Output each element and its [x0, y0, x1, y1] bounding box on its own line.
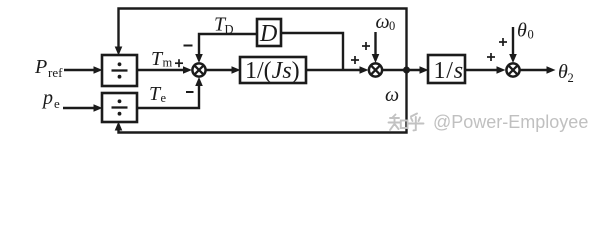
svg-text:0: 0	[389, 19, 395, 33]
wire output theta2	[520, 69, 548, 71]
svg-text:e: e	[54, 96, 60, 111]
plus sign at S2 left input	[351, 56, 359, 64]
svg-text:ω: ω	[376, 11, 390, 33]
arrowhead into S3 top	[509, 54, 517, 63]
wire integrator to summer S3	[465, 69, 498, 71]
arrowhead into S2 top	[372, 54, 380, 63]
svg-text:P: P	[34, 56, 47, 78]
wire inertia output to summer S2	[306, 69, 361, 71]
arrowhead into S1 top	[195, 54, 203, 63]
minus sign at S1 bottom input	[186, 91, 194, 93]
svg-text:p: p	[41, 87, 53, 109]
summing junction S1	[192, 63, 205, 76]
plus sign at S3 top input	[499, 38, 507, 46]
wire top feedback from node omega to divider1 top	[119, 9, 407, 71]
arrowhead into S1 left	[183, 66, 192, 74]
wire tap from main line up into damping block D	[281, 33, 343, 70]
divider block DIV1	[102, 55, 137, 86]
arrowhead into divider1	[94, 66, 103, 74]
arrowhead into S3 left	[497, 66, 506, 74]
plus sign at S2 top input	[362, 42, 370, 50]
inertia block 1/(Js)	[240, 57, 306, 83]
integrator block 1/s	[428, 55, 465, 83]
svg-text:1/(Js): 1/(Js)	[245, 58, 300, 84]
arrowhead into S2 left	[360, 66, 369, 74]
summing junction S2	[369, 63, 382, 76]
arrowhead into divider2	[94, 104, 103, 112]
wire bottom feedback from node omega to divider2 bottom	[119, 70, 407, 133]
divide symbol in DIV2	[112, 99, 128, 115]
wire pe input	[63, 107, 95, 109]
wire theta0 input into S3 top	[512, 27, 514, 56]
svg-text:e: e	[161, 91, 167, 105]
wire omega0 input into S2 top	[374, 32, 376, 56]
arrowhead into divider1 top	[115, 47, 123, 56]
svg-text:ω: ω	[385, 84, 399, 106]
divider block DIV2	[102, 93, 137, 122]
watermark zhihu glyphs	[389, 114, 424, 131]
plus sign at S1 left input	[175, 59, 183, 67]
svg-text:m: m	[163, 56, 173, 70]
svg-text:1/s: 1/s	[434, 58, 464, 84]
wire Te from DIV2 up into S1 bottom	[137, 84, 199, 108]
wire Tm from DIV1 to summer S1	[137, 69, 185, 71]
wire TD from damping block D down into S1 top	[199, 34, 257, 56]
svg-text:0: 0	[528, 28, 534, 42]
damping block D	[257, 19, 281, 46]
svg-text:2: 2	[568, 71, 574, 85]
svg-text:D: D	[259, 21, 277, 47]
svg-text:ref: ref	[48, 65, 63, 80]
arrowhead output	[547, 66, 556, 74]
svg-text:@Power-Employee: @Power-Employee	[433, 112, 588, 132]
wire Pref input	[64, 69, 95, 71]
arrowhead into inertia block	[232, 66, 241, 74]
divide symbol in DIV1	[112, 62, 128, 78]
svg-text:θ: θ	[558, 61, 568, 83]
wire S1 to inertia block	[207, 69, 234, 71]
plus sign at S3 left input	[487, 53, 495, 61]
arrowhead into divider2 bottom	[115, 122, 123, 131]
summing junction S3	[506, 63, 519, 76]
node omega junction dot	[403, 67, 410, 74]
minus sign at S1 top input	[184, 45, 193, 47]
svg-text:θ: θ	[517, 20, 527, 42]
arrowhead into S1 bottom	[195, 77, 203, 86]
wire S2 to integrator with node omega	[383, 69, 422, 71]
arrowhead into integrator	[420, 66, 429, 74]
